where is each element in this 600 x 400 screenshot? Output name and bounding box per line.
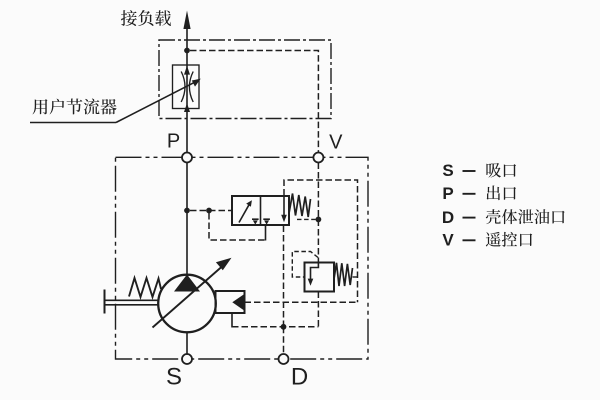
wire : P to pump line: [186, 163, 188, 276]
node : pump flow triangle: [174, 275, 200, 292]
wire : pump outlet to S port: [186, 332, 188, 354]
legend row D: [442, 208, 565, 227]
node : port D: [279, 354, 289, 364]
legend row V: [442, 231, 532, 250]
node : junction dot above throttle: [184, 48, 190, 54]
legend row S: [442, 161, 516, 180]
valve : pilot relief valve: [305, 263, 335, 292]
legend row P: [442, 184, 516, 203]
svg-text:V: V: [329, 132, 343, 154]
actuator : stroking piston box: [216, 291, 245, 313]
svg-text:S: S: [442, 161, 453, 180]
node : port P: [182, 153, 192, 163]
node : proportional arrow left cell: [239, 205, 249, 223]
wire : piston drain: [231, 313, 233, 328]
wire : pilot loop valve top to stroking piston: [284, 180, 358, 302]
throttle valve : user flow restrictor box: [173, 65, 200, 109]
node : tank marks bottom of valve: [252, 218, 259, 220]
wire : leader / adjustment arrow: [116, 82, 196, 123]
svg-text:V: V: [442, 231, 454, 250]
wire : pilot from P line to compensator valve: [190, 210, 231, 212]
node : variable displacement arrow: [153, 267, 223, 328]
wire : drain line to D port: [232, 326, 318, 328]
spring : compensator valve spring: [289, 194, 311, 218]
valve : LS control valve body: [232, 196, 289, 225]
node : pump cartridge enclosure (big dash-dot box): [116, 157, 369, 359]
pump : variable displacement pump circle: [158, 275, 216, 333]
wire : valve drain to D: [283, 226, 285, 327]
node : subplate enclosure (top dash-dot box): [159, 40, 331, 119]
node : flow arrowheads in throttle: [184, 66, 190, 75]
node : port S: [182, 354, 192, 364]
throttle valve : restriction arcs: [181, 72, 185, 103]
svg-text:P: P: [167, 131, 180, 153]
wire : relief valve remote pilot loop: [292, 252, 318, 278]
wire : V port line down to relief valve: [317, 163, 319, 263]
svg-text:S: S: [166, 363, 182, 390]
node : displacement limiter rod: [105, 299, 159, 301]
node : 接负载 load label: [121, 10, 171, 26]
wire : spring pilot to V line: [297, 218, 318, 220]
svg-text:D: D: [291, 363, 308, 390]
node : drain arrow right cell: [283, 197, 285, 216]
svg-text:P: P: [442, 184, 453, 203]
wire : pilot line from load line to V port: [190, 51, 318, 153]
spring : pump bias spring: [129, 278, 161, 297]
node : load arrow: [183, 11, 190, 30]
spring : relief valve spring: [334, 263, 353, 286]
svg-text:D: D: [442, 208, 454, 227]
node : port V: [313, 153, 323, 163]
wire : main flow line P riser to load: [186, 20, 188, 153]
node : 用户节流器 label with leader: [33, 99, 117, 115]
node : junction dot P line: [184, 208, 190, 214]
